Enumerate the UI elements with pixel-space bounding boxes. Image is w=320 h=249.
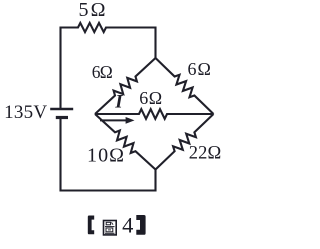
svg-text:I: I xyxy=(114,92,123,113)
svg-text:4: 4 xyxy=(122,213,133,238)
svg-text:135V: 135V xyxy=(4,102,47,123)
svg-text:6Ω: 6Ω xyxy=(139,88,162,108)
svg-text:22Ω: 22Ω xyxy=(189,144,222,164)
svg-text:6Ω: 6Ω xyxy=(187,59,211,79)
svg-text:10Ω: 10Ω xyxy=(87,145,124,167)
svg-text:5Ω: 5Ω xyxy=(79,0,106,21)
svg-text:6Ω: 6Ω xyxy=(92,62,113,82)
